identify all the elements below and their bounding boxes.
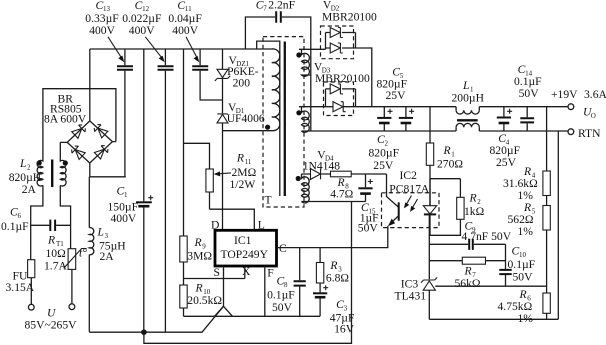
svg-text:IC2: IC2	[400, 169, 418, 182]
svg-text:2A: 2A	[22, 183, 37, 196]
common-mode choke L2 right winding	[60, 142, 70, 248]
resistor R2	[429, 179, 484, 236]
svg-text:R: R	[469, 191, 477, 204]
diode VD4 1N4148	[302, 149, 341, 180]
svg-text:16V: 16V	[334, 323, 355, 336]
svg-text:RTN: RTN	[578, 127, 601, 140]
output terminal RTN	[568, 129, 574, 135]
bridge diode bottom-right	[94, 144, 109, 159]
phototransistor of IC2	[387, 174, 399, 248]
svg-text:0.1µF: 0.1µF	[1, 220, 29, 233]
capacitor C11	[168, 0, 222, 100]
transformer dashed box	[263, 37, 304, 207]
svg-text:0.1µF: 0.1µF	[508, 258, 536, 271]
capacitor C8	[267, 248, 306, 317]
wire S pin with source triangle	[215, 266, 233, 316]
bridge rectifier diamond wires	[60, 121, 116, 163]
svg-text:L: L	[462, 79, 469, 92]
svg-text:IC1: IC1	[234, 234, 252, 247]
thermistor RT1	[44, 233, 87, 303]
svg-text:t°: t°	[79, 247, 87, 260]
svg-text:56kΩ: 56kΩ	[455, 277, 481, 290]
rectifier VD2 MBR20100	[321, 0, 377, 107]
svg-text:4.7nF 50V: 4.7nF 50V	[462, 230, 512, 243]
wire R11 feed branch	[184, 143, 210, 169]
svg-text:1.7A: 1.7A	[44, 259, 67, 272]
svg-text:L: L	[97, 226, 104, 239]
resistor R11	[206, 152, 257, 210]
primary phase dot	[265, 125, 270, 130]
wire source return line	[184, 315, 321, 317]
svg-text:7: 7	[263, 5, 267, 13]
svg-text:L: L	[19, 157, 26, 170]
wire top DC+ bus	[90, 48, 273, 50]
wire RTN drop right	[557, 131, 559, 319]
bridge diode top-right	[93, 123, 108, 138]
wire RTN bus	[302, 130, 569, 132]
svg-text:R: R	[443, 144, 451, 157]
wire L pin link	[210, 209, 255, 230]
wire R4 sense drop	[546, 107, 548, 171]
common-mode choke L2 left winding	[31, 160, 43, 259]
wire R9 sense line from bus	[183, 49, 185, 236]
svg-text:8A 600V: 8A 600V	[44, 113, 87, 126]
wire LED cathode column	[428, 214, 431, 279]
svg-text:25V: 25V	[373, 159, 394, 172]
svg-text:D: D	[211, 219, 219, 232]
bridge rectifier BR box outline	[43, 89, 116, 161]
svg-text:R: R	[47, 233, 55, 246]
resistor R9	[180, 236, 213, 263]
resistor R4	[503, 165, 550, 202]
transformer primary winding	[264, 49, 280, 131]
svg-text:10Ω: 10Ω	[46, 247, 67, 260]
svg-text:1N4148: 1N4148	[303, 159, 341, 172]
svg-text:TOP249Y: TOP249Y	[221, 248, 269, 261]
capacitor C5 electrolytic	[377, 65, 408, 131]
capacitor C4 electrolytic	[490, 107, 521, 169]
svg-text:200µH: 200µH	[452, 91, 485, 104]
wire R4-R5	[546, 196, 548, 206]
svg-text:R: R	[195, 282, 203, 295]
svg-text:L: L	[258, 219, 265, 232]
svg-text:1/2W: 1/2W	[230, 178, 256, 191]
diode VD1 UF4006	[217, 101, 265, 230]
wire secondary A top to VD2	[299, 48, 326, 50]
svg-text:S: S	[214, 266, 220, 279]
svg-text:3.15A: 3.15A	[6, 281, 35, 294]
svg-text:UF4006: UF4006	[227, 112, 265, 125]
shunt regulator IC3 TL431	[395, 277, 438, 319]
primary ground rail 1	[89, 306, 223, 332]
svg-text:1%: 1%	[518, 312, 534, 325]
bridge diode top-left	[72, 123, 87, 138]
capacitor C14	[514, 63, 542, 131]
svg-text:R: R	[236, 152, 244, 165]
svg-text:X: X	[242, 265, 251, 278]
svg-text:F: F	[267, 266, 274, 279]
light arrows	[404, 196, 418, 212]
svg-text:2.2nF: 2.2nF	[268, 0, 295, 12]
resistor R8	[330, 171, 386, 200]
L2 phase dot left	[37, 160, 42, 165]
bias winding	[296, 174, 310, 203]
svg-text:R: R	[464, 264, 472, 277]
resistor R7	[429, 257, 505, 290]
wire F pin	[264, 266, 266, 316]
svg-text:4.7Ω: 4.7Ω	[330, 187, 353, 200]
svg-text:50V: 50V	[519, 87, 540, 100]
L2 label	[9, 157, 42, 196]
svg-text:11: 11	[245, 158, 252, 166]
svg-text:3MΩ: 3MΩ	[187, 250, 212, 263]
wire feedback bottom rail	[429, 318, 558, 320]
capacitor C10	[499, 244, 535, 286]
resistor R10	[180, 282, 223, 317]
junction dot rail1/C1	[141, 329, 147, 335]
secondary winding A	[296, 49, 311, 76]
wire R5 to R6 through ref node	[546, 230, 548, 293]
output terminal +19V	[568, 104, 574, 110]
svg-text:R: R	[194, 236, 202, 249]
svg-text:400V: 400V	[111, 212, 137, 225]
wire primary bottom to drain line	[223, 130, 264, 132]
transformer core bar	[284, 42, 286, 197]
wire bridge plus riser	[89, 49, 91, 121]
wire bias winding bottom	[302, 201, 366, 203]
wire TL431 ref line	[435, 285, 546, 287]
svg-text:400V: 400V	[89, 24, 115, 37]
svg-text:25V: 25V	[496, 156, 517, 169]
wire C pin	[277, 247, 389, 249]
resistor R3	[316, 248, 349, 285]
svg-text:1kΩ: 1kΩ	[464, 205, 485, 218]
inductor L1 common-mode output choke	[452, 79, 485, 131]
svg-text:2A: 2A	[100, 250, 115, 263]
secondary winding B	[296, 107, 309, 133]
svg-text:20.5kΩ: 20.5kΩ	[187, 294, 222, 307]
svg-text:50V: 50V	[513, 271, 534, 284]
svg-text:200: 200	[233, 77, 251, 90]
L2 phase dot right	[63, 160, 68, 165]
svg-text:T: T	[265, 194, 272, 207]
zener VDZ1 P6KE-200	[215, 49, 259, 113]
primary ground rail 2	[144, 202, 352, 344]
svg-text:270Ω: 270Ω	[437, 157, 463, 170]
svg-text:85V~265V: 85V~265V	[25, 318, 78, 331]
svg-text:6: 6	[18, 212, 22, 220]
svg-text:0.1µF: 0.1µF	[267, 288, 295, 301]
inductor L3	[89, 177, 126, 332]
svg-text:MBR20100: MBR20100	[315, 72, 370, 85]
svg-text:3.6A: 3.6A	[584, 88, 606, 101]
bulk capacitor C1	[108, 49, 154, 332]
svg-text:C: C	[279, 242, 287, 255]
capacitor C6	[1, 206, 71, 234]
resistor R5	[508, 201, 551, 238]
svg-text:MBR20100: MBR20100	[322, 10, 377, 23]
transformer shield jog wire	[257, 41, 280, 196]
input terminal right	[69, 304, 75, 310]
fuse FU	[6, 260, 35, 305]
svg-text:25V: 25V	[386, 89, 407, 102]
output labels	[551, 88, 606, 140]
capacitor C3 electrolytic	[313, 283, 355, 336]
input voltage label U 85V~265V	[25, 306, 78, 331]
wire R9 to R10 with X pin tap	[184, 262, 245, 285]
svg-text:820µF: 820µF	[369, 147, 400, 160]
svg-text:50V: 50V	[358, 222, 379, 235]
svg-text:1: 1	[124, 191, 128, 199]
svg-text:400V: 400V	[129, 24, 155, 37]
svg-text:6.8Ω: 6.8Ω	[326, 271, 349, 284]
wire X pin	[244, 266, 246, 279]
svg-text:TL431: TL431	[395, 289, 427, 302]
resistor R1 feed	[426, 107, 463, 206]
rectifier VD3 MBR20100	[314, 60, 370, 115]
capacitor C13	[85, 0, 133, 177]
capacitor C2 electrolytic	[369, 107, 415, 173]
wire +19V bus	[344, 106, 568, 108]
capacitor C12	[122, 0, 173, 332]
IC2 dashed box	[382, 193, 440, 228]
svg-text:50V: 50V	[272, 301, 293, 314]
wire secondary B top tap	[299, 106, 333, 108]
wire bridge minus to C13 branch	[90, 163, 126, 177]
svg-text:O: O	[591, 112, 596, 120]
input terminal left	[28, 304, 34, 310]
capacitor C15 electrolytic	[358, 174, 379, 235]
svg-text:R: R	[329, 259, 337, 272]
resistor R6	[498, 288, 551, 325]
capacitor C9	[429, 220, 511, 250]
L2 core	[51, 160, 53, 188]
svg-text:+19V: +19V	[551, 88, 578, 101]
svg-text:PC817A: PC817A	[389, 182, 430, 195]
svg-text:1%: 1%	[518, 225, 534, 238]
bridge diode bottom-left	[70, 144, 85, 159]
LED of IC2	[423, 179, 436, 236]
svg-text:400V: 400V	[172, 24, 198, 37]
